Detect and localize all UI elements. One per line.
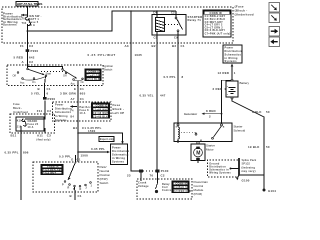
svg-text:Start: Start (46, 72, 52, 76)
svg-text:B2: B2 (152, 44, 156, 48)
svg-text:Relay 71: Relay 71 (188, 18, 202, 22)
svg-text:C2=6 BLK: C2=6 BLK (86, 78, 100, 81)
svg-text:C2=RED CLR: C2=RED CLR (173, 190, 191, 193)
svg-text:C1: C1 (80, 87, 84, 91)
svg-text:1035: 1035 (135, 53, 143, 57)
svg-text:8 RED: 8 RED (206, 109, 216, 113)
svg-text:G100: G100 (242, 178, 250, 182)
svg-text:40 A: 40 A (29, 24, 35, 27)
svg-text:B11: B11 (11, 134, 17, 138)
svg-text:P100: P100 (161, 169, 169, 173)
svg-text:E: E (74, 87, 76, 91)
svg-text:J10: J10 (17, 127, 22, 129)
svg-text:Systems: Systems (225, 60, 238, 63)
svg-text:5 YEL: 5 YEL (31, 91, 40, 95)
svg-text:6: 6 (47, 91, 49, 95)
svg-text:5 RED: 5 RED (14, 55, 24, 59)
svg-text:B: B (223, 127, 225, 129)
svg-text:A7: A7 (71, 97, 75, 101)
svg-text:Export only: Export only (100, 138, 114, 141)
svg-text:Voltage: Voltage (138, 185, 149, 188)
svg-text:605: 605 (80, 91, 86, 95)
svg-text:F4: F4 (71, 110, 75, 113)
svg-text:P200: P200 (31, 49, 39, 53)
svg-text:(PCM): (PCM) (194, 192, 203, 196)
svg-text:P: P (62, 184, 64, 187)
svg-text:Systems: Systems (55, 119, 67, 122)
svg-text:P200: P200 (48, 97, 56, 101)
svg-text:806: 806 (23, 151, 29, 155)
svg-text:{Underhood: {Underhood (235, 13, 254, 17)
svg-text:19 BLK: 19 BLK (248, 145, 260, 149)
svg-text:Motor: Motor (206, 148, 214, 152)
svg-text:On: On (81, 80, 85, 84)
svg-text:C1: C1 (47, 87, 51, 91)
svg-text:F11: F11 (37, 109, 43, 113)
svg-text:B4: B4 (73, 126, 77, 130)
svg-text:Underhood: Underhood (13, 110, 28, 114)
svg-text:Switch: Switch (100, 181, 109, 185)
svg-text:0.35 PPL/WHT: 0.35 PPL/WHT (88, 53, 116, 57)
svg-text:F1: F1 (20, 44, 24, 48)
svg-text:T04: T04 (22, 22, 27, 25)
svg-text:Schematics: Schematics (55, 111, 71, 114)
svg-text:0.5 PPL: 0.5 PPL (59, 154, 71, 158)
svg-text:Generator: Generator (184, 112, 197, 116)
svg-text:C3: C3 (47, 134, 51, 138)
svg-text:0.5 PPL: 0.5 PPL (164, 75, 176, 79)
svg-text:B: B (70, 194, 72, 198)
svg-text:Battery: Battery (240, 81, 250, 85)
svg-text:8: 8 (182, 75, 184, 79)
svg-text:10 A: 10 A (80, 112, 86, 115)
svg-text:C7=PNK (A/T only): C7=PNK (A/T only) (205, 32, 231, 35)
svg-text:On: On (32, 80, 36, 84)
svg-text:SP102: SP102 (242, 162, 251, 166)
svg-text:Systems: Systems (112, 160, 125, 163)
svg-text:B3: B3 (172, 44, 176, 48)
svg-text:1: 1 (234, 71, 236, 75)
svg-text:HOT AT ALL TIMES: HOT AT ALL TIMES (17, 2, 43, 6)
svg-text:0.35 YEL: 0.35 YEL (140, 94, 154, 98)
svg-text:3 DK GRN: 3 DK GRN (60, 91, 76, 95)
svg-text:C1: C1 (181, 44, 185, 48)
svg-text:76: 76 (150, 174, 154, 178)
svg-text:C2: C2 (29, 60, 33, 64)
svg-text:G104: G104 (268, 189, 276, 193)
svg-text:1: 1 (224, 87, 226, 91)
svg-text:M: M (196, 151, 200, 157)
svg-text:in Wiring: in Wiring (55, 115, 68, 118)
svg-text:13 RED: 13 RED (218, 71, 230, 75)
svg-text:Systems: Systems (3, 23, 17, 27)
svg-text:K10: K10 (17, 121, 22, 123)
svg-text:C3=48 BLK: C3=48 BLK (93, 116, 108, 119)
svg-text:C1: C1 (78, 194, 82, 198)
svg-text:Power: Power (55, 104, 64, 107)
svg-text:C2: C2 (171, 11, 175, 15)
svg-text:C3: C3 (47, 109, 51, 113)
svg-text:Left I/P: Left I/P (113, 111, 125, 115)
svg-text:10 A: 10 A (28, 126, 34, 129)
svg-text:8 BLK: 8 BLK (252, 110, 262, 114)
svg-text:Switch: Switch (104, 68, 113, 72)
svg-text:Acc: Acc (71, 82, 76, 86)
svg-text:C3: C3 (29, 44, 33, 48)
svg-text:R: R (68, 187, 70, 190)
svg-text:C1: C1 (80, 97, 84, 101)
svg-text:50: 50 (266, 145, 270, 149)
svg-text:1500: 1500 (81, 154, 89, 158)
svg-text:Acc: Acc (20, 81, 25, 85)
svg-text:B: B (38, 87, 40, 91)
svg-text:C1: C1 (77, 157, 81, 161)
svg-text:Solenoid: Solenoid (234, 129, 246, 133)
svg-text:50: 50 (266, 110, 270, 114)
svg-text:Control: Control (162, 189, 173, 192)
svg-text:C4: C4 (153, 11, 157, 15)
svg-text:B4: B4 (71, 116, 75, 119)
svg-text:23: 23 (127, 174, 131, 178)
svg-text:1500: 1500 (88, 129, 96, 133)
svg-text:447: 447 (160, 94, 166, 98)
svg-text:S: S (176, 127, 178, 129)
svg-text:(4wd only): (4wd only) (37, 138, 51, 141)
svg-text:0.35 PPL: 0.35 PPL (91, 147, 105, 151)
svg-text:D: D (80, 188, 82, 191)
svg-text:Wiring Systems: Wiring Systems (209, 171, 231, 174)
svg-text:A3: A3 (125, 44, 129, 48)
svg-text:C2=4 WHT: C2=4 WHT (43, 172, 57, 175)
svg-text:0.35 PPL: 0.35 PPL (5, 151, 19, 155)
svg-text:642: 642 (29, 55, 35, 59)
svg-text:2 RED: 2 RED (213, 87, 223, 91)
svg-text:Distribution: Distribution (55, 107, 72, 110)
svg-text:C2: C2 (161, 174, 165, 178)
svg-text:Off: Off (13, 74, 17, 78)
svg-text:may vary): may vary) (242, 170, 256, 173)
svg-text:2: 2 (209, 115, 211, 119)
svg-text:A11: A11 (37, 134, 43, 138)
svg-text:C9: C9 (174, 36, 178, 40)
svg-text:Off: Off (63, 74, 67, 78)
svg-text:M: M (200, 140, 202, 142)
